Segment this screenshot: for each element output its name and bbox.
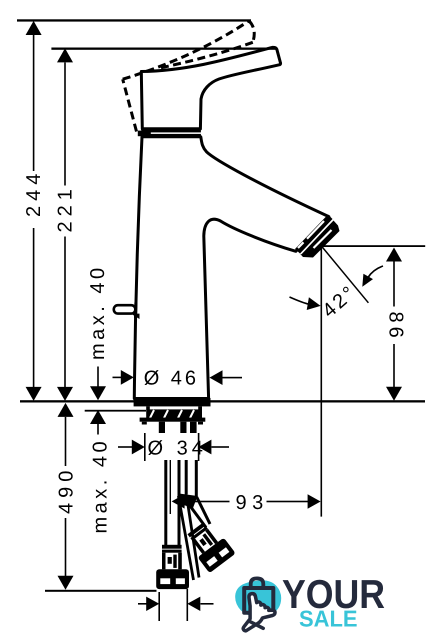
svg-text:max. 40: max. 40 bbox=[90, 438, 112, 534]
svg-text:244: 244 bbox=[23, 169, 45, 217]
top reference line 244 bbox=[17, 19, 251, 21]
drain knob bbox=[114, 305, 136, 313]
dim max40 lower bbox=[90, 410, 106, 435]
svg-text:490: 490 bbox=[56, 466, 78, 514]
washer bar bbox=[140, 418, 206, 422]
logo blob bbox=[235, 580, 281, 616]
dim 244 bbox=[26, 21, 42, 401]
dim max40 upper bbox=[90, 367, 106, 401]
shank tubes bbox=[159, 422, 165, 435]
490 bottom reference line bbox=[45, 590, 157, 592]
logo bag bbox=[244, 578, 273, 612]
aerator bbox=[295, 215, 333, 254]
logo hand wrist stroke bbox=[250, 622, 263, 629]
flange block bbox=[146, 409, 202, 418]
angled hose connector bbox=[183, 518, 236, 573]
dim diam34 bbox=[146, 433, 198, 460]
dim 86 bbox=[386, 248, 402, 401]
dashed raised lever bbox=[123, 21, 255, 132]
axis line bbox=[169, 460, 171, 514]
base plate under deck bbox=[134, 398, 211, 406]
reference line 221 bbox=[51, 48, 276, 50]
dim diam46 bbox=[113, 370, 243, 385]
hoses bbox=[166, 460, 210, 546]
svg-text:SALE: SALE bbox=[299, 606, 358, 632]
joint band bbox=[141, 130, 201, 133]
dim 221 bbox=[57, 48, 73, 401]
dim 93 bbox=[172, 494, 321, 509]
bottom unlabeled dim bbox=[138, 589, 214, 621]
straight hose connector bbox=[156, 545, 189, 589]
flange walls bbox=[146, 406, 150, 409]
svg-text:Ø 34: Ø 34 bbox=[148, 438, 207, 460]
svg-text:86: 86 bbox=[385, 312, 407, 342]
svg-text:221: 221 bbox=[55, 184, 77, 232]
handle housing and lever bbox=[141, 47, 280, 128]
dim 490 bbox=[58, 403, 74, 590]
deck bottom line bbox=[85, 410, 146, 412]
pull rod bbox=[178, 496, 193, 580]
deck line bbox=[20, 400, 425, 402]
faucet body and spout outline bbox=[134, 137, 328, 399]
svg-text:max. 40: max. 40 bbox=[87, 264, 109, 360]
svg-text:Ø 46: Ø 46 bbox=[144, 368, 199, 390]
42 degree annotation bbox=[320, 246, 322, 517]
logo hand bbox=[243, 594, 275, 631]
svg-text:9 3: 9 3 bbox=[236, 492, 264, 514]
86 top reference line bbox=[320, 245, 425, 247]
hose bend blob bbox=[179, 494, 198, 509]
